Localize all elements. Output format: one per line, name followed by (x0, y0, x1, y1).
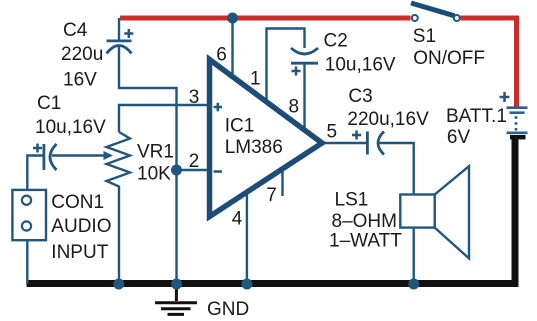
svg-text:C1: C1 (37, 93, 61, 114)
svg-text:8–OHM: 8–OHM (332, 211, 397, 232)
svg-text:6V: 6V (447, 127, 471, 148)
svg-text:4: 4 (232, 208, 243, 229)
svg-text:GND: GND (207, 299, 249, 320)
svg-text:VR1: VR1 (137, 142, 174, 163)
svg-text:C2: C2 (324, 30, 348, 51)
svg-text:3: 3 (189, 87, 200, 108)
svg-text:10u,16V: 10u,16V (325, 55, 396, 76)
svg-text:BATT.1: BATT.1 (446, 106, 507, 127)
svg-text:5: 5 (327, 122, 338, 143)
svg-text:S1: S1 (413, 26, 436, 47)
svg-text:2: 2 (189, 151, 200, 172)
svg-text:IC1: IC1 (225, 116, 255, 137)
svg-text:8: 8 (289, 97, 300, 118)
svg-text:220u,16V: 220u,16V (347, 109, 429, 130)
svg-text:7: 7 (266, 185, 277, 206)
svg-text:CON1: CON1 (51, 192, 104, 213)
svg-text:1–WATT: 1–WATT (329, 231, 402, 252)
svg-text:C3: C3 (348, 86, 372, 107)
svg-text:10K: 10K (137, 164, 171, 185)
svg-text:LM386: LM386 (225, 137, 283, 158)
svg-text:AUDIO: AUDIO (51, 216, 111, 237)
svg-text:C4: C4 (63, 20, 88, 41)
svg-text:10u,16V: 10u,16V (35, 117, 106, 138)
svg-text:INPUT: INPUT (51, 242, 108, 263)
svg-text:6: 6 (216, 44, 227, 65)
svg-text:16V: 16V (63, 69, 97, 90)
svg-text:ON/OFF: ON/OFF (413, 48, 485, 69)
svg-text:220u: 220u (61, 44, 103, 65)
svg-text:LS1: LS1 (335, 190, 369, 211)
svg-text:1: 1 (250, 68, 261, 89)
